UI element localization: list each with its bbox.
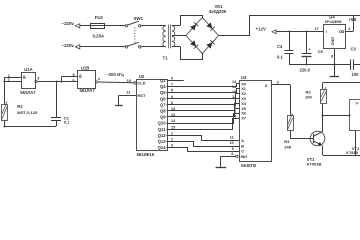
svg-text:3: 3	[277, 81, 279, 85]
svg-text:0.1: 0.1	[277, 55, 283, 60]
svg-text:Q4: Q4	[160, 84, 166, 89]
svg-text:100: 100	[352, 72, 360, 77]
svg-text:Q14: Q14	[158, 145, 167, 150]
svg-text:U1B: U1B	[81, 65, 89, 70]
svg-text:0.25A: 0.25A	[93, 34, 106, 39]
svg-text:220.0: 220.0	[300, 68, 311, 73]
svg-text:11: 11	[230, 135, 234, 139]
svg-text:9: 9	[232, 147, 234, 151]
svg-text:A: A	[241, 138, 244, 143]
svg-text:5: 5	[234, 105, 236, 109]
svg-text:Q9: Q9	[160, 115, 166, 120]
svg-text:R2: R2	[17, 104, 23, 109]
svg-text:V: V	[356, 101, 359, 106]
svg-text:C: C	[241, 149, 244, 154]
svg-text:C4: C4	[277, 44, 283, 49]
svg-text:2: 2	[171, 138, 173, 142]
svg-text:INH: INH	[241, 155, 248, 159]
svg-text:561КП2: 561КП2	[241, 163, 257, 168]
svg-text:МЛТ-0,125: МЛТ-0,125	[17, 110, 38, 115]
svg-text:Q10: Q10	[158, 121, 167, 126]
svg-text:C3: C3	[351, 46, 357, 51]
svg-text:Q11: Q11	[158, 127, 166, 132]
svg-text:~200 кГц: ~200 кГц	[107, 72, 125, 77]
svg-text:+12V: +12V	[256, 27, 266, 32]
svg-text:1: 1	[171, 131, 173, 135]
svg-text:2: 2	[234, 110, 236, 114]
svg-text:15: 15	[232, 90, 236, 94]
svg-text:Q1: Q1	[160, 78, 166, 83]
svg-text:U1A: U1A	[24, 67, 32, 72]
svg-text:КТ815: КТ815	[346, 150, 358, 155]
svg-text:Q6: Q6	[160, 96, 166, 101]
svg-text:T1: T1	[163, 56, 169, 61]
svg-text:8: 8	[331, 55, 333, 59]
svg-text:~220v: ~220v	[62, 43, 75, 48]
svg-text:CLK: CLK	[137, 81, 145, 86]
svg-text:O: O	[339, 29, 342, 34]
svg-text:6: 6	[72, 78, 74, 82]
svg-text:4xКД209: 4xКД209	[209, 9, 227, 14]
svg-text:SW1: SW1	[134, 16, 144, 21]
svg-text:КР142ЕН8: КР142ЕН8	[325, 20, 342, 24]
svg-text:1: 1	[234, 100, 236, 104]
svg-text:5: 5	[72, 73, 74, 77]
svg-text:9: 9	[171, 77, 173, 81]
svg-text:RST: RST	[137, 93, 146, 98]
svg-text:12: 12	[232, 95, 236, 99]
svg-text:0,1: 0,1	[64, 120, 70, 125]
svg-text:GND: GND	[331, 37, 335, 46]
svg-text:~220v: ~220v	[62, 21, 75, 26]
svg-text:2: 2	[8, 78, 10, 82]
svg-text:FU1: FU1	[95, 15, 104, 20]
svg-text:U2: U2	[139, 74, 145, 79]
svg-text:I: I	[326, 29, 327, 34]
svg-text:U4: U4	[329, 15, 335, 20]
svg-text:561ЛА7: 561ЛА7	[80, 88, 96, 93]
svg-text:КТ503В: КТ503В	[307, 162, 322, 167]
svg-text:R4: R4	[284, 139, 290, 144]
svg-text:Q8: Q8	[160, 109, 166, 114]
svg-text:Q5: Q5	[160, 90, 166, 95]
svg-text:X: X	[265, 83, 268, 88]
svg-text:10К: 10К	[305, 95, 312, 100]
svg-text:Q7: Q7	[160, 102, 166, 107]
svg-text:15: 15	[171, 125, 175, 129]
svg-text:6: 6	[231, 152, 233, 156]
svg-text:U3: U3	[241, 75, 247, 80]
svg-text:17: 17	[314, 26, 319, 31]
svg-text:Q12: Q12	[158, 133, 167, 138]
svg-text:561ЛА7: 561ЛА7	[20, 90, 36, 95]
svg-text:10: 10	[127, 78, 132, 83]
svg-text:C5: C5	[318, 49, 324, 54]
svg-text:3: 3	[37, 76, 39, 80]
svg-text:X7: X7	[241, 116, 246, 121]
svg-text:24К: 24К	[284, 144, 291, 149]
svg-text:Q13: Q13	[158, 139, 167, 144]
svg-text:10: 10	[230, 141, 234, 145]
svg-text:561ИЕ16: 561ИЕ16	[137, 152, 155, 157]
svg-text:+5В: +5В	[349, 17, 357, 22]
svg-text:13: 13	[232, 80, 236, 84]
